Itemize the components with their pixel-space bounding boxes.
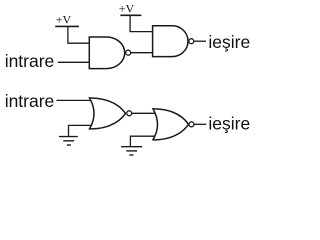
ground symbol 2 (121, 147, 142, 155)
power rail bar 2 (120, 14, 141, 16)
svg-text:intrare: intrare (5, 91, 55, 111)
wire intrare to NOR U3 upper input (56, 99, 91, 101)
wire +V rail to NAND U1 upper input (68, 26, 89, 43)
wire U2 output to ieşire (194, 40, 206, 42)
wire ground to NOR U3 lower input (69, 125, 92, 136)
svg-text:+V: +V (119, 2, 135, 16)
svg-text:ieşire: ieşire (208, 113, 250, 133)
NOR gate U4 body (153, 109, 189, 140)
wire U4 output to ieşire (194, 123, 206, 125)
NAND gate U2 body (153, 26, 188, 57)
NAND U2 output bubble (189, 39, 194, 44)
wire ground to NOR U4 lower input (130, 136, 154, 146)
svg-text:intrare: intrare (5, 51, 55, 71)
svg-text:+V: +V (56, 13, 72, 27)
NOR gate U3 body (90, 98, 126, 129)
wire U3 output to NOR U4 upper input (132, 112, 155, 114)
NOR U3 output bubble (127, 111, 132, 116)
wire +V rail 2 to NAND U2 upper input (130, 15, 153, 31)
power rail bar 1 (55, 25, 79, 27)
NAND gate U1 body (89, 37, 124, 69)
ground symbol 1 (59, 137, 78, 145)
svg-text:ieşire: ieşire (208, 32, 250, 52)
wire intrare to NAND U1 lower input (58, 61, 90, 63)
wire U1 output to NAND U2 lower input (131, 52, 153, 54)
NOR U4 output bubble (189, 122, 194, 127)
NAND U1 output bubble (126, 50, 131, 55)
